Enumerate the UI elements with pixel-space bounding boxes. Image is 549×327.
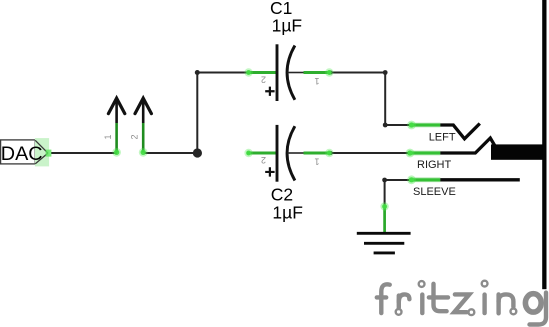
svg-text:1: 1 [314,76,319,86]
svg-text:LEFT: LEFT [429,131,456,143]
svg-text:C2: C2 [271,184,293,204]
svg-text:DAC: DAC [1,143,43,165]
svg-text:1µF: 1µF [272,203,303,223]
svg-text:RIGHT: RIGHT [417,159,452,171]
svg-text:2: 2 [130,134,140,139]
svg-text:2: 2 [261,75,266,85]
svg-text:1: 1 [103,134,113,139]
svg-text:2: 2 [261,155,266,165]
svg-text:1µF: 1µF [272,16,303,36]
svg-text:SLEEVE: SLEEVE [413,186,456,198]
svg-text:1: 1 [314,157,319,167]
